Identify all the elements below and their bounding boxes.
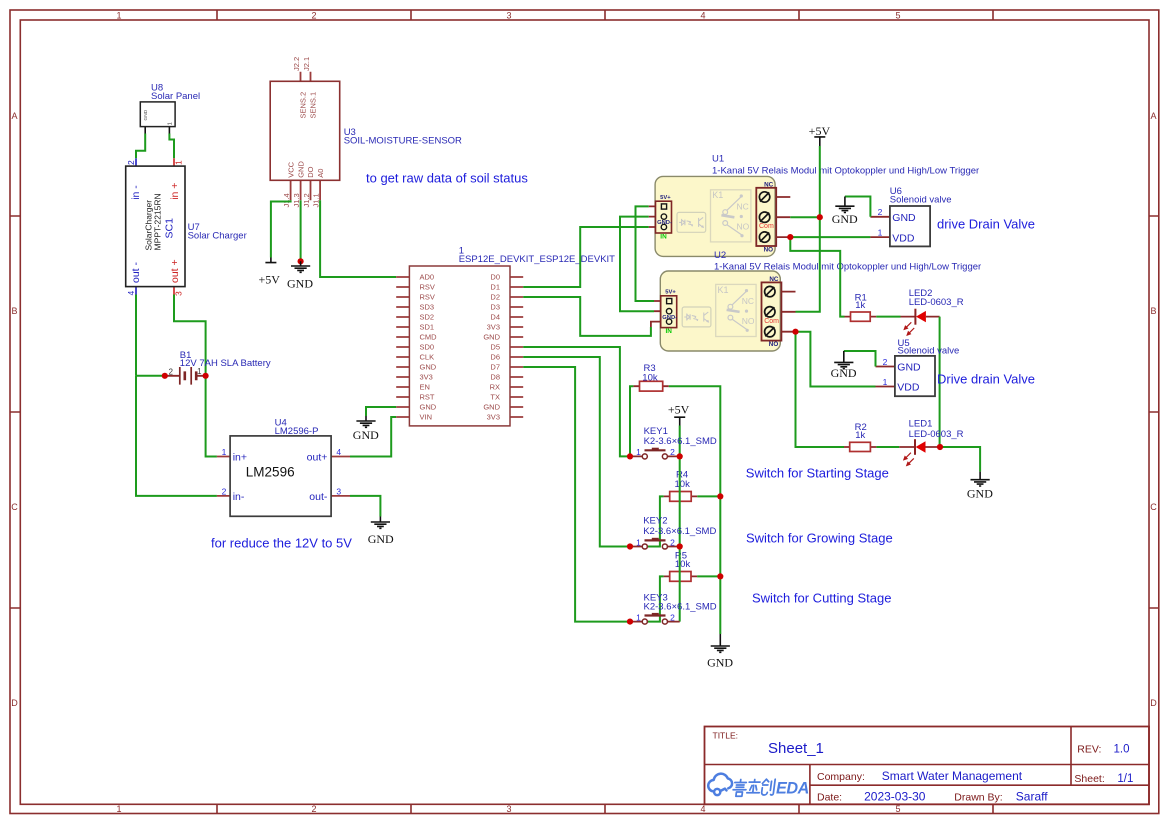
svg-text:1: 1 <box>883 377 888 387</box>
+5V flag at keys <box>668 403 690 426</box>
junction LED node <box>937 444 943 450</box>
wire U2 NO to U5 VDD <box>796 332 876 387</box>
svg-text:TITLE:: TITLE: <box>713 731 739 741</box>
svg-text:1-Kanal 5V Relais Modul mit Op: 1-Kanal 5V Relais Modul mit Optokoppler … <box>714 261 981 272</box>
svg-text:+5V: +5V <box>809 124 831 138</box>
wire R5 to KEY3 <box>647 576 663 621</box>
wire +5V to U1 Com and U2 Com <box>790 146 820 312</box>
junction U1 NO <box>787 234 793 240</box>
svg-text:drive Drain Valve: drive Drain Valve <box>937 217 1035 232</box>
svg-text:Smart Water Management: Smart Water Management <box>882 769 1023 783</box>
junction R4 GND rail <box>717 493 723 499</box>
svg-text:D4: D4 <box>490 313 500 322</box>
svg-text:3: 3 <box>336 486 341 496</box>
svg-text:1k: 1k <box>855 300 865 311</box>
svg-text:SD3: SD3 <box>420 303 435 312</box>
wire battery plus node to LM2596 in+ <box>206 376 217 457</box>
wire LED2 down to LED1 node <box>939 317 941 447</box>
svg-text:+5V: +5V <box>668 403 690 417</box>
JLCEDA logo <box>708 774 809 798</box>
solenoid valve U6 <box>870 186 951 246</box>
svg-text:J2.2: J2.2 <box>292 57 301 71</box>
wire ESP D6 to KEY2 <box>523 357 630 547</box>
wire SC1 pin4 to battery minus <box>135 295 137 376</box>
svg-text:Sheet_1: Sheet_1 <box>768 740 824 757</box>
svg-text:4: 4 <box>700 11 705 21</box>
svg-text:LM2596-P: LM2596-P <box>275 426 319 437</box>
svg-text:A0: A0 <box>316 169 325 178</box>
svg-text:Switch for Cutting Stage: Switch for Cutting Stage <box>752 591 891 606</box>
junction KEY3 pin1 <box>627 619 633 625</box>
wire U8 pin1 to SC1 pin1 <box>168 127 170 134</box>
wire LM2596 out- to ground <box>350 496 380 517</box>
svg-text:1: 1 <box>168 122 174 125</box>
svg-text:B: B <box>1150 306 1156 316</box>
svg-text:2: 2 <box>169 367 173 376</box>
svg-text:GND: GND <box>967 486 993 500</box>
wire ESP D1 to relay U1 IN <box>523 227 649 287</box>
svg-text:EN: EN <box>420 383 430 392</box>
svg-text:VDD: VDD <box>897 382 920 394</box>
svg-text:LED-0603_R: LED-0603_R <box>909 429 964 440</box>
svg-text:DO: DO <box>306 166 315 177</box>
svg-text:SD0: SD0 <box>420 343 435 352</box>
svg-text:SD2: SD2 <box>420 313 435 322</box>
svg-text:LED-0603_R: LED-0603_R <box>909 297 964 308</box>
svg-text:D: D <box>1150 698 1157 708</box>
svg-text:D1: D1 <box>490 283 500 292</box>
svg-text:1k: 1k <box>855 430 865 441</box>
wire ESP D5 to KEY1 <box>523 347 630 456</box>
svg-text:12V 7AH SLA Battery: 12V 7AH SLA Battery <box>180 358 271 369</box>
svg-text:10k: 10k <box>675 479 691 490</box>
svg-text:TX: TX <box>490 393 500 402</box>
svg-text:4: 4 <box>336 447 341 457</box>
svg-text:Sheet:: Sheet: <box>1074 773 1104 785</box>
switch KEY2 <box>630 537 680 549</box>
relay module U1 <box>649 176 791 256</box>
svg-text:3V3: 3V3 <box>487 323 500 332</box>
svg-text:RX: RX <box>490 383 500 392</box>
svg-text:Solar Panel: Solar Panel <box>151 91 200 102</box>
svg-text:VIN: VIN <box>420 413 433 422</box>
junction KEY2 pin2 <box>677 543 683 549</box>
+5V flag above relays <box>809 124 831 146</box>
svg-text:2: 2 <box>222 486 227 496</box>
ground at keys <box>707 634 733 670</box>
svg-text:2023-03-30: 2023-03-30 <box>864 790 926 804</box>
svg-text:3V3: 3V3 <box>420 373 433 382</box>
junction U2 NO <box>792 329 798 335</box>
wire U3 GND to ground <box>300 200 302 261</box>
svg-text:1/1: 1/1 <box>1117 773 1133 785</box>
svg-text:GND: GND <box>483 403 500 412</box>
svg-text:RSV: RSV <box>420 293 435 302</box>
wire R3 to GND rail <box>669 386 721 634</box>
switch KEY1 <box>630 447 680 459</box>
svg-text:1: 1 <box>222 447 227 457</box>
svg-text:D0: D0 <box>490 273 500 282</box>
wire LED node to ground <box>940 447 980 472</box>
svg-text:1: 1 <box>174 160 184 165</box>
solar charger U7 / SC1 <box>126 158 247 296</box>
regulator U4 LM2596 <box>217 418 350 517</box>
LED1 <box>899 419 963 466</box>
relay module U2 <box>654 271 796 351</box>
svg-text:J2.1: J2.1 <box>302 57 311 71</box>
svg-text:Switch for Growing Stage: Switch for Growing Stage <box>746 531 893 546</box>
junction battery plus <box>203 373 209 379</box>
svg-text:Drive drain Valve: Drive drain Valve <box>937 371 1035 386</box>
junction U1 Com +5V <box>817 214 823 220</box>
svg-text:ESP12E_DEVKIT_ESP12E_DEVKIT: ESP12E_DEVKIT_ESP12E_DEVKIT <box>459 254 615 265</box>
svg-text:D5: D5 <box>490 343 500 352</box>
wire R5 to GND rail <box>697 575 720 577</box>
svg-text:MPPT-2215RN: MPPT-2215RN <box>153 193 163 250</box>
svg-text:RST: RST <box>420 393 435 402</box>
svg-text:U1: U1 <box>712 154 724 165</box>
svg-text:in +: in + <box>169 183 181 200</box>
wire U5 GND to ground <box>844 351 876 367</box>
svg-text:SD1: SD1 <box>420 323 435 332</box>
svg-text:GND: GND <box>420 403 437 412</box>
svg-text:out +: out + <box>169 259 181 283</box>
svg-text:1: 1 <box>116 11 121 21</box>
svg-text:REV:: REV: <box>1077 744 1101 756</box>
wire U3 A0 to ESP AD0 <box>320 200 396 277</box>
svg-text:K2-3.6×6.1_SMD: K2-3.6×6.1_SMD <box>644 601 717 612</box>
wire U3 VCC to +5V <box>271 200 291 257</box>
svg-text:GND: GND <box>707 656 733 670</box>
svg-text:5: 5 <box>895 11 900 21</box>
svg-text:Date:: Date: <box>817 792 842 804</box>
resistor R5 <box>664 551 698 582</box>
ground at LM2596 out- <box>368 517 394 547</box>
resistor R3 <box>633 363 668 391</box>
svg-text:Switch for Starting Stage: Switch for Starting Stage <box>746 466 889 481</box>
svg-text:3: 3 <box>506 804 511 814</box>
svg-text:D3: D3 <box>490 303 500 312</box>
svg-text:VCC: VCC <box>286 161 295 177</box>
junction R5 GND rail <box>717 573 723 579</box>
svg-text:Solenoid valve: Solenoid valve <box>890 195 952 206</box>
svg-text:2: 2 <box>311 11 316 21</box>
svg-text:GND: GND <box>143 109 149 120</box>
junction U3 GND <box>298 258 304 264</box>
svg-text:RSV: RSV <box>420 283 435 292</box>
svg-text:GND: GND <box>483 333 500 342</box>
ground at LEDs <box>967 472 993 501</box>
svg-text:out-: out- <box>309 491 328 503</box>
wire R2 to LED1 <box>876 446 899 448</box>
svg-text:A: A <box>11 111 17 121</box>
svg-text:K2-3.6×6.1_SMD: K2-3.6×6.1_SMD <box>643 526 716 537</box>
svg-text:CLK: CLK <box>420 353 435 362</box>
svg-text:4: 4 <box>700 804 705 814</box>
svg-text:out -: out - <box>130 261 142 283</box>
svg-text:10k: 10k <box>642 373 658 384</box>
ground at ESP GND <box>353 416 379 442</box>
svg-text:2: 2 <box>878 207 883 217</box>
wire ESP D2 to relay U2 IN <box>523 297 651 336</box>
svg-text:to get raw data of soil status: to get raw data of soil status <box>366 170 528 185</box>
wire ESP GND pin to ground <box>366 407 396 416</box>
junction battery minus <box>162 373 168 379</box>
ground at U5 <box>831 351 857 380</box>
svg-text:GND: GND <box>353 428 379 442</box>
svg-text:EDA: EDA <box>776 780 809 798</box>
svg-text:U2: U2 <box>714 250 726 261</box>
svg-text:Drawn By:: Drawn By: <box>954 792 1002 804</box>
svg-text:SENS.2: SENS.2 <box>298 92 307 119</box>
svg-text:out+: out+ <box>307 452 328 464</box>
svg-text:GND: GND <box>368 532 394 546</box>
+5V flag at U3 <box>258 258 280 287</box>
resistor R2 <box>844 422 876 452</box>
svg-text:GND: GND <box>892 212 916 224</box>
svg-text:CMD: CMD <box>420 333 438 342</box>
svg-text:Solar Charger: Solar Charger <box>188 231 247 242</box>
solenoid valve U5 <box>876 338 960 396</box>
wire U8 pin GND to SC1 pin2 <box>144 127 146 134</box>
svg-text:+5V: +5V <box>258 273 280 287</box>
wire SC1 pin3 to battery plus <box>174 295 206 376</box>
svg-text:VDD: VDD <box>892 232 915 244</box>
svg-text:D2: D2 <box>490 293 500 302</box>
svg-text:SENS.1: SENS.1 <box>308 92 317 119</box>
LED2 <box>901 288 964 335</box>
svg-text:D8: D8 <box>490 373 500 382</box>
svg-text:D6: D6 <box>490 353 500 362</box>
wire ESP D7 to KEY3 <box>523 367 630 622</box>
svg-text:Saraff: Saraff <box>1016 790 1048 804</box>
junction KEY1 pin2 <box>677 453 683 459</box>
svg-text:in -: in - <box>130 185 142 200</box>
svg-text:in-: in- <box>233 491 245 503</box>
svg-text:C: C <box>11 502 18 512</box>
svg-text:4: 4 <box>126 291 136 296</box>
svg-text:2: 2 <box>126 160 136 165</box>
svg-text:GND: GND <box>832 212 858 226</box>
svg-text:SC1: SC1 <box>164 218 176 239</box>
wire battery minus node to LM2596 in- <box>136 376 217 496</box>
svg-text:GND: GND <box>420 363 437 372</box>
resistor R1 <box>845 292 877 321</box>
wire +5V rail through key pins <box>679 426 681 622</box>
ground at U6 <box>832 197 858 226</box>
svg-text:Company:: Company: <box>817 771 865 783</box>
wire R4 to GND rail <box>697 495 720 497</box>
solar panel U8 <box>140 83 200 127</box>
battery B1 <box>165 350 271 385</box>
svg-text:1.0: 1.0 <box>1114 744 1130 756</box>
svg-text:1: 1 <box>116 804 121 814</box>
ground at U3 <box>287 261 313 290</box>
soil moisture sensor U3 <box>270 57 462 208</box>
svg-text:K2-3.6×6.1_SMD: K2-3.6×6.1_SMD <box>644 436 717 447</box>
wire LM2596 out+ to ESP VIN <box>350 417 396 457</box>
svg-text:1-Kanal 5V Relais Modul mit Op: 1-Kanal 5V Relais Modul mit Optokoppler … <box>712 165 979 176</box>
svg-text:GND: GND <box>831 366 857 380</box>
svg-text:5: 5 <box>895 804 900 814</box>
wire 5V+ rail U1 to U2 <box>636 206 655 301</box>
svg-text:1: 1 <box>878 227 883 237</box>
svg-text:A: A <box>1150 111 1156 121</box>
title block <box>705 727 1150 805</box>
svg-text:2: 2 <box>311 804 316 814</box>
svg-text:GND: GND <box>287 277 313 291</box>
svg-text:3: 3 <box>506 11 511 21</box>
wire U1 NO to R1 <box>790 237 844 317</box>
switch KEY3 <box>630 612 680 624</box>
svg-text:3V3: 3V3 <box>487 413 500 422</box>
wire U6 GND to ground <box>845 197 871 217</box>
svg-text:AD0: AD0 <box>420 273 435 282</box>
wire R3 to KEY1 node <box>630 386 633 456</box>
svg-text:Solenoid valve: Solenoid valve <box>898 346 960 357</box>
resistor R4 <box>664 470 698 502</box>
wire R1 to LED2 <box>876 316 900 318</box>
svg-text:2: 2 <box>883 357 888 367</box>
svg-text:GND: GND <box>296 161 305 178</box>
wire U1 NO to U6 VDD <box>790 236 870 238</box>
svg-text:10k: 10k <box>675 559 691 570</box>
svg-text:LM2596: LM2596 <box>246 465 295 480</box>
svg-text:D: D <box>11 698 18 708</box>
ESP12E devkit U1 module <box>396 246 615 426</box>
wire U2 NO down to R2 <box>796 332 845 447</box>
wire GND- rail U1 to U2 <box>620 217 654 312</box>
svg-text:C: C <box>1150 502 1157 512</box>
junction KEY1 pin1 <box>627 453 633 459</box>
svg-text:J1.2: J1.2 <box>302 193 311 207</box>
svg-text:SOIL-MOISTURE-SENSOR: SOIL-MOISTURE-SENSOR <box>344 136 462 147</box>
svg-text:in+: in+ <box>233 452 247 464</box>
junction KEY2 pin1 <box>627 543 633 549</box>
svg-text:B: B <box>11 306 17 316</box>
svg-text:GND: GND <box>897 362 921 374</box>
svg-text:for reduce the 12V to 5V: for reduce the 12V to 5V <box>211 536 352 551</box>
wire R4 to KEY2 <box>647 496 663 546</box>
svg-text:D7: D7 <box>490 363 500 372</box>
